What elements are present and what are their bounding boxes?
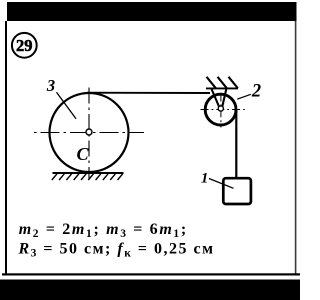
- svg-text:C: C: [76, 144, 89, 164]
- svg-text:m2 = 2m1; m3 = 6m1;: m2 = 2m1; m3 = 6m1;: [19, 221, 188, 240]
- svg-text:1: 1: [201, 170, 209, 186]
- svg-text:3: 3: [46, 76, 55, 95]
- svg-text:R3 = 50 см; fк = 0,25 см: R3 = 50 см; fк = 0,25 см: [18, 241, 215, 260]
- svg-text:2: 2: [251, 82, 261, 102]
- svg-text:29: 29: [16, 36, 33, 55]
